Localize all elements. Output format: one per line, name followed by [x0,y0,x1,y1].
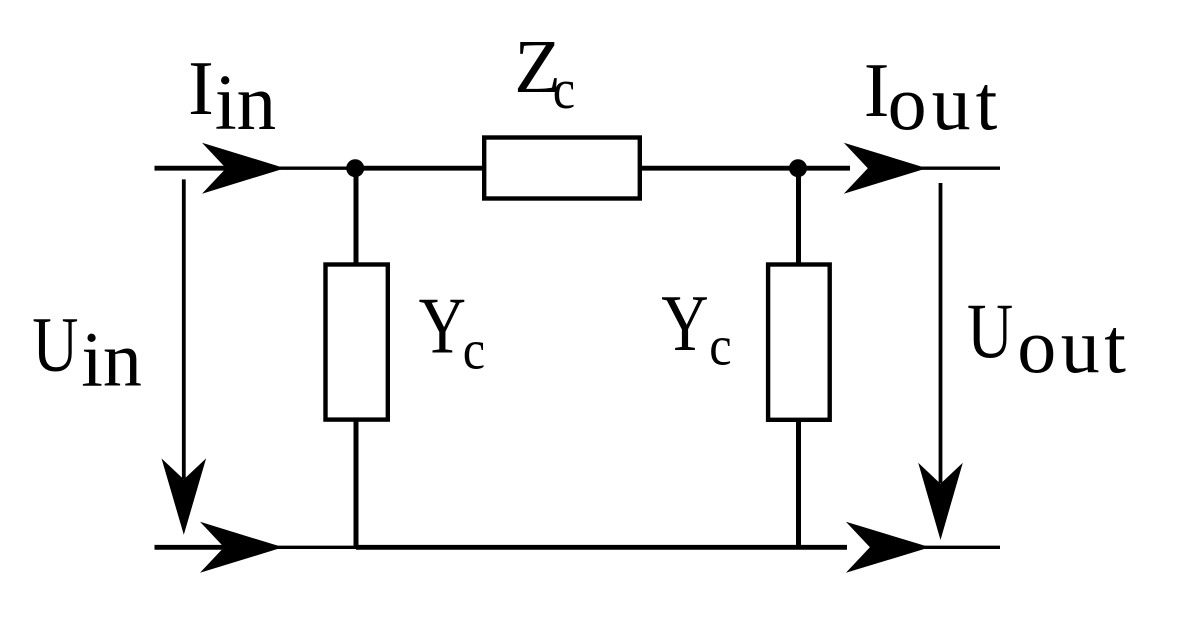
label I_in [188,45,276,147]
wire Z_c to node B [640,166,798,171]
wire bottom-left return lead [155,545,231,550]
wire right Y_c to bottom rail [796,420,801,547]
label Y_c left [419,282,485,382]
svg-text:in: in [215,60,276,147]
arrowhead on bottom-right return wire [846,522,930,573]
wire node B down to right Y_c [796,168,801,264]
impedance Z_c series box [484,138,640,199]
arrowhead on bottom-left return wire [200,522,283,573]
voltage arrow U_out head [918,463,963,540]
wire from I_in arrow tip to node A [279,166,353,169]
label Z_c [514,24,575,121]
svg-text:in: in [81,315,142,402]
node B output junction dot [789,159,807,177]
wire node A down to left Y_c [354,168,359,264]
voltage arrow U_in head [162,458,207,534]
arrowhead of current I_in [202,143,285,194]
label Y_c right [661,279,731,377]
wire top-left input lead [155,166,231,171]
node A input junction dot [346,159,364,177]
svg-text:Y: Y [661,279,708,368]
wire bottom arrow tip to left Y_c foot [277,546,356,549]
label U_in [32,302,142,403]
admittance Y_c left shunt box [326,265,388,420]
svg-text:Y: Y [419,282,466,371]
svg-text:U: U [32,302,78,388]
admittance Y_c right shunt box [768,265,830,420]
svg-text:c: c [463,319,485,381]
wire node A to Z_c [355,166,484,171]
arrowhead of current I_out [844,143,927,194]
svg-text:out: out [888,59,1003,146]
svg-text:I: I [188,45,214,131]
svg-text:out: out [1017,302,1130,389]
wire node B to I_out arrow [798,166,850,171]
wire top-right output lead [921,166,1000,169]
svg-text:c: c [553,59,575,121]
label I_out [864,47,1002,146]
bottom rail wire between shunt feet [356,545,847,550]
svg-text:U: U [967,288,1013,374]
voltage arrow U_in line [182,179,186,479]
label U_out [967,288,1130,389]
wire bottom-right return lead [924,546,1000,549]
voltage arrow U_out line [939,183,943,483]
svg-text:c: c [709,315,731,377]
wire left Y_c to bottom rail [354,420,359,547]
svg-text:I: I [864,47,890,133]
